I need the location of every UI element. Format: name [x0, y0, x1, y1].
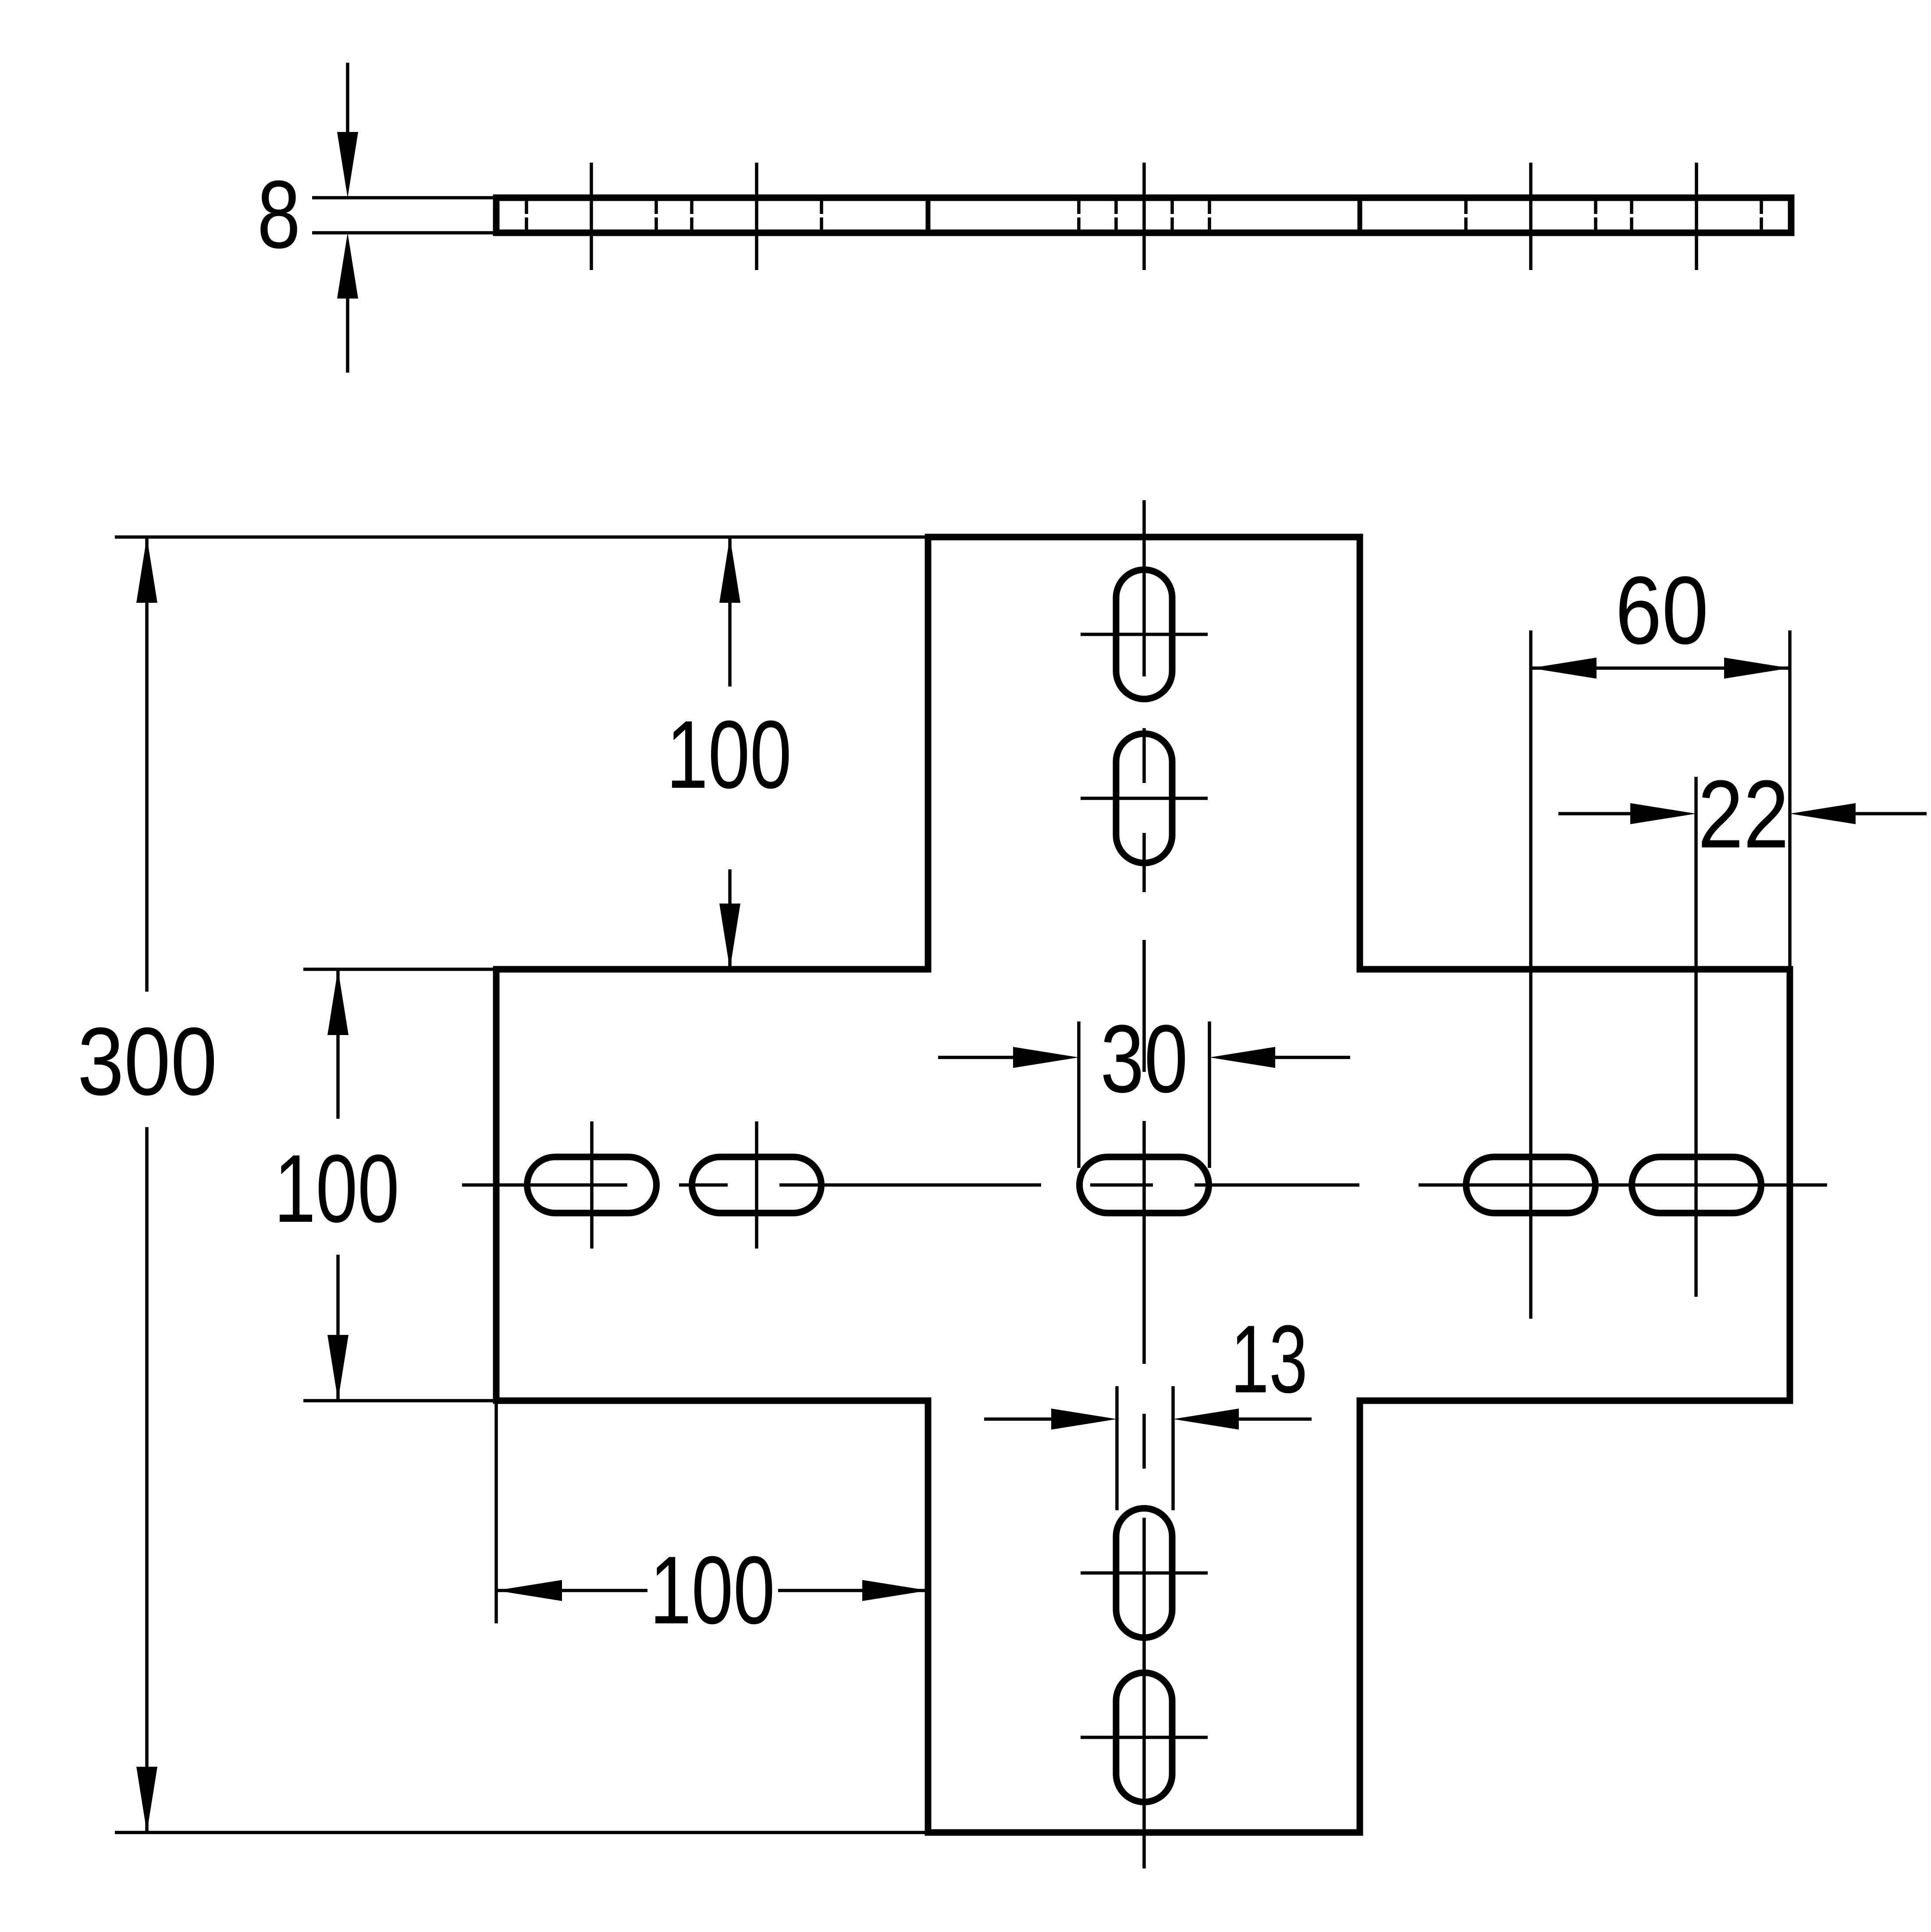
- svg-text:60: 60: [1615, 556, 1709, 664]
- svg-text:30: 30: [1100, 1005, 1188, 1113]
- svg-text:22: 22: [1698, 760, 1789, 868]
- svg-text:100: 100: [666, 701, 792, 808]
- svg-text:100: 100: [650, 1536, 775, 1644]
- svg-text:100: 100: [274, 1135, 399, 1242]
- svg-text:8: 8: [257, 160, 301, 268]
- svg-text:13: 13: [1230, 1305, 1308, 1413]
- svg-text:300: 300: [78, 1007, 217, 1115]
